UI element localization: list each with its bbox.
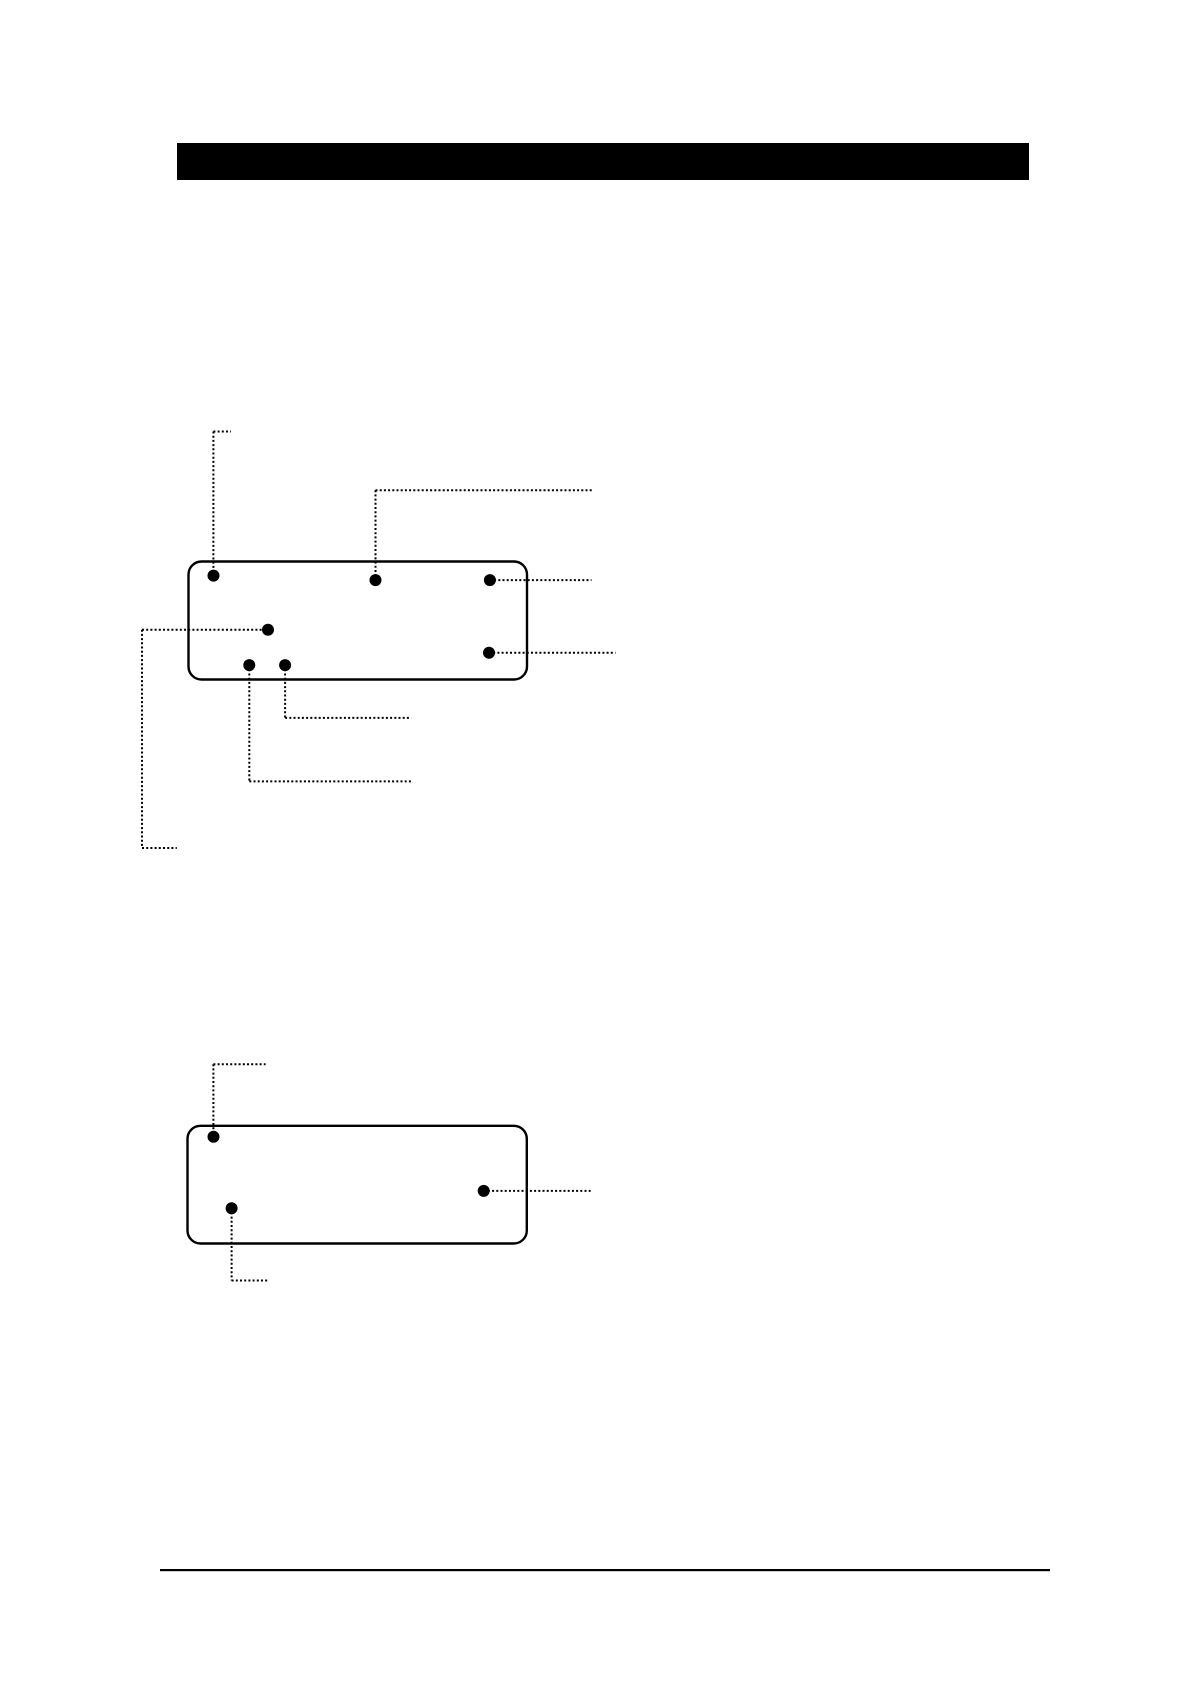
leader line G horizontal xyxy=(285,717,411,719)
panel outline P2 (rear panel) xyxy=(188,1126,527,1244)
callout dot J (P2 right) xyxy=(478,1185,490,1197)
leader line C horizontal xyxy=(490,579,592,581)
leader line I horizontal xyxy=(232,1280,268,1282)
leader line G vertical xyxy=(284,665,286,718)
leader line F horizontal xyxy=(249,780,411,782)
callout dot H (P2 top-left) xyxy=(208,1131,220,1143)
footer rule xyxy=(160,1569,1050,1571)
callout dot F (P1 bottom-left outer) xyxy=(243,659,255,671)
leader line E horizontal xyxy=(489,652,616,654)
callout dot C (P1 top-right) xyxy=(484,574,496,586)
callout dot A (P1 top-left) xyxy=(208,570,220,582)
callout dot B (P1 top-middle) xyxy=(370,574,382,586)
leader line A horizontal stub xyxy=(213,431,231,433)
leader line B vertical xyxy=(375,490,377,580)
callout dot E (P1 right-lower) xyxy=(483,647,495,659)
leader line D bottom stub xyxy=(142,847,177,849)
leader line D horizontal to left xyxy=(142,629,268,631)
leader line H horizontal xyxy=(213,1063,265,1065)
leader line H vertical xyxy=(212,1064,214,1137)
callout dot G (P1 bottom-left inner) xyxy=(279,659,291,671)
leader line F vertical xyxy=(248,665,250,781)
title bar xyxy=(177,143,1029,180)
leader line J horizontal xyxy=(484,1190,592,1192)
leader line I vertical xyxy=(231,1208,233,1280)
panel outline P1 (front panel) xyxy=(189,562,528,680)
leader line D vertical down xyxy=(141,630,143,848)
callout dot I (P2 bottom-left) xyxy=(226,1202,238,1214)
leader line B horizontal xyxy=(376,489,593,491)
callout dot D (P1 middle-left) xyxy=(262,624,274,636)
leader line A vertical xyxy=(212,432,214,576)
